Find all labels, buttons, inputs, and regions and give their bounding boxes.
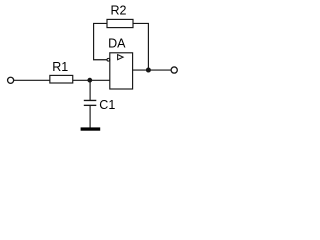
resistor R2 <box>107 19 133 27</box>
op-amp DA body <box>110 53 133 89</box>
svg-text:DA: DA <box>108 37 126 51</box>
op-amp inverting input circle <box>107 58 110 61</box>
node A junction dot <box>87 78 92 83</box>
ground bar <box>81 127 101 130</box>
svg-text:C1: C1 <box>99 98 115 112</box>
capacitor C1 bottom plate <box>84 104 97 106</box>
op-amp output wire <box>133 69 172 71</box>
wire feedback to inverting input + left feedback vertical + R2 left lead <box>94 23 107 59</box>
op-amp amplifier triangle symbol <box>118 55 124 60</box>
resistor R1 <box>50 75 73 83</box>
svg-text:R2: R2 <box>111 4 127 18</box>
svg-text:R1: R1 <box>52 60 68 74</box>
capacitor C1 top plate <box>84 99 97 101</box>
output junction dot <box>146 68 151 73</box>
wire C1 to ground <box>89 105 91 127</box>
input terminal (left open circle) <box>8 77 14 83</box>
output terminal (right open circle) <box>171 67 177 73</box>
R2 right lead + right feedback vertical <box>133 23 148 70</box>
wire node A down to C1 <box>89 80 91 100</box>
wire input terminal through R1 position to op-amp non-inverting input <box>14 79 110 81</box>
